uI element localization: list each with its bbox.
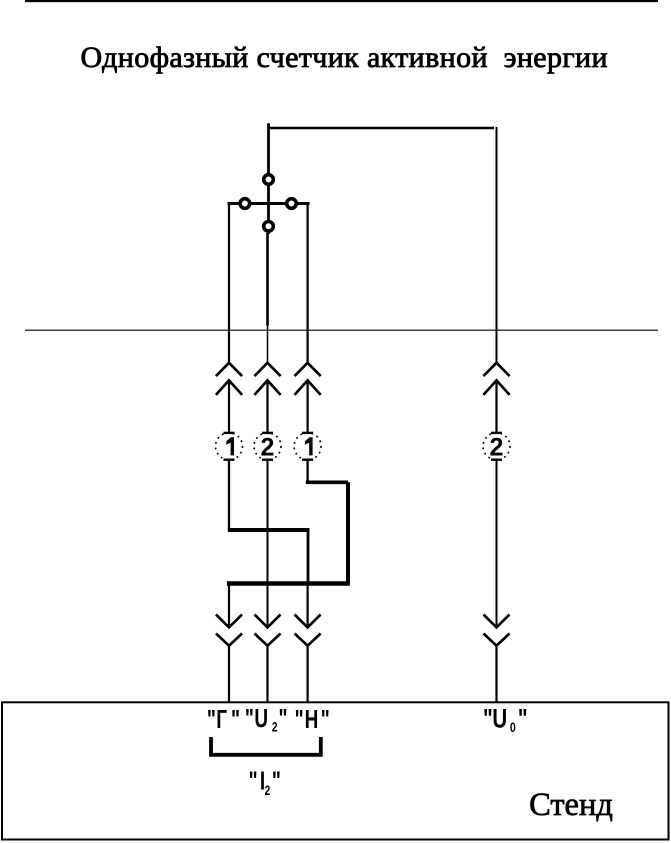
crossover bus: col1 horizontal right bbox=[228, 528, 310, 532]
crossover bus: short vertical down to bottom bus bbox=[307, 530, 310, 584]
svg-text:U: U bbox=[492, 704, 507, 734]
stand box bbox=[2, 702, 669, 839]
down arrowhead column3 bbox=[295, 615, 321, 646]
wire column3 into stand bbox=[307, 646, 309, 703]
svg-text:Стенд: Стенд bbox=[529, 787, 613, 823]
wire column3 bus to arrow bbox=[307, 584, 309, 628]
svg-text:": " bbox=[207, 704, 216, 734]
wire: column2 thin continue to chevron bbox=[267, 326, 269, 363]
cross connector horizontal bbox=[228, 202, 310, 205]
wire column1 chevron to circle1 bbox=[228, 380, 230, 432]
svg-text:": " bbox=[518, 704, 528, 734]
svg-text:0: 0 bbox=[510, 720, 516, 736]
svg-text:": " bbox=[231, 704, 240, 734]
wire column2 into stand bbox=[266, 646, 268, 703]
svg-text:Н: Н bbox=[305, 704, 319, 734]
wire column4 chevron to circle4 bbox=[495, 380, 497, 432]
svg-text:": " bbox=[272, 766, 281, 796]
svg-text:2: 2 bbox=[490, 433, 504, 461]
terminal circle right bbox=[287, 199, 297, 209]
terminal label "Г" bbox=[207, 704, 240, 734]
wire column2 circle straight down to arrow bbox=[267, 460, 269, 628]
dashed number circle 1 (node 1) bbox=[216, 433, 243, 460]
wire: column3 from cross down bbox=[307, 204, 309, 363]
dashed number circle 2 (node 2) bbox=[254, 433, 281, 462]
wire column1 circle to corner bbox=[228, 460, 230, 530]
terminal circle top bbox=[264, 175, 274, 185]
up chevrons column1 bbox=[216, 363, 242, 395]
wire: right vertical drop (U0 column) bbox=[496, 127, 498, 363]
up chevrons column3 bbox=[295, 363, 321, 395]
wire column4 into stand bbox=[495, 646, 497, 703]
top border line bbox=[25, 0, 658, 2]
wire: column1 from cross down bbox=[228, 204, 230, 363]
svg-text:2: 2 bbox=[272, 719, 278, 735]
dashed number circle 3 (node 1) bbox=[294, 433, 321, 460]
svg-text:": " bbox=[249, 766, 258, 796]
wire column2 chevron to circle2 bbox=[266, 380, 268, 432]
wire: column2 thick segment below bottom circle bbox=[266, 233, 269, 326]
terminal circle left bbox=[240, 199, 250, 209]
up chevrons column4 bbox=[483, 363, 509, 395]
wire: top horizontal feed bbox=[268, 127, 494, 130]
wire column4 circle straight down to arrow bbox=[496, 460, 498, 628]
wire: left vertical drop into cross bbox=[267, 123, 270, 234]
svg-text:": " bbox=[483, 704, 493, 734]
wire column3 chevron to circle3 bbox=[307, 380, 309, 432]
label "I2" bbox=[249, 766, 281, 799]
separator line bbox=[25, 329, 658, 331]
down arrowhead column2 bbox=[255, 615, 281, 646]
wire column3 circle to corner bbox=[306, 460, 308, 483]
terminal label "U2" bbox=[245, 703, 288, 735]
wire column1 bus to arrow bbox=[228, 584, 230, 628]
crossover bus: col3 horizontal right bbox=[306, 480, 348, 484]
svg-text:Г: Г bbox=[216, 704, 227, 734]
svg-text:Однофазный счетчик активной э: Однофазный счетчик активной энергии bbox=[81, 41, 608, 74]
crossover bus: right vertical bbox=[346, 482, 350, 583]
down arrowhead column4 bbox=[484, 615, 510, 646]
svg-text:U: U bbox=[254, 703, 268, 733]
svg-text:2: 2 bbox=[261, 433, 275, 461]
up chevrons column2 bbox=[254, 363, 280, 395]
terminal circle bottom bbox=[264, 222, 274, 232]
terminal label "U0" bbox=[483, 704, 528, 736]
wire column1 into stand bbox=[228, 646, 230, 703]
svg-text:2: 2 bbox=[265, 782, 271, 798]
svg-text:": " bbox=[321, 704, 330, 734]
svg-text:": " bbox=[278, 703, 287, 733]
crossover bus: bottom horizontal bbox=[227, 581, 350, 586]
down arrowhead column1 bbox=[216, 615, 242, 646]
svg-text:": " bbox=[245, 703, 254, 733]
current bracket I2 bbox=[211, 737, 321, 755]
svg-text:": " bbox=[295, 704, 304, 734]
dashed number circle 4 (node 2) bbox=[483, 433, 510, 462]
terminal label "Н" bbox=[295, 704, 330, 734]
